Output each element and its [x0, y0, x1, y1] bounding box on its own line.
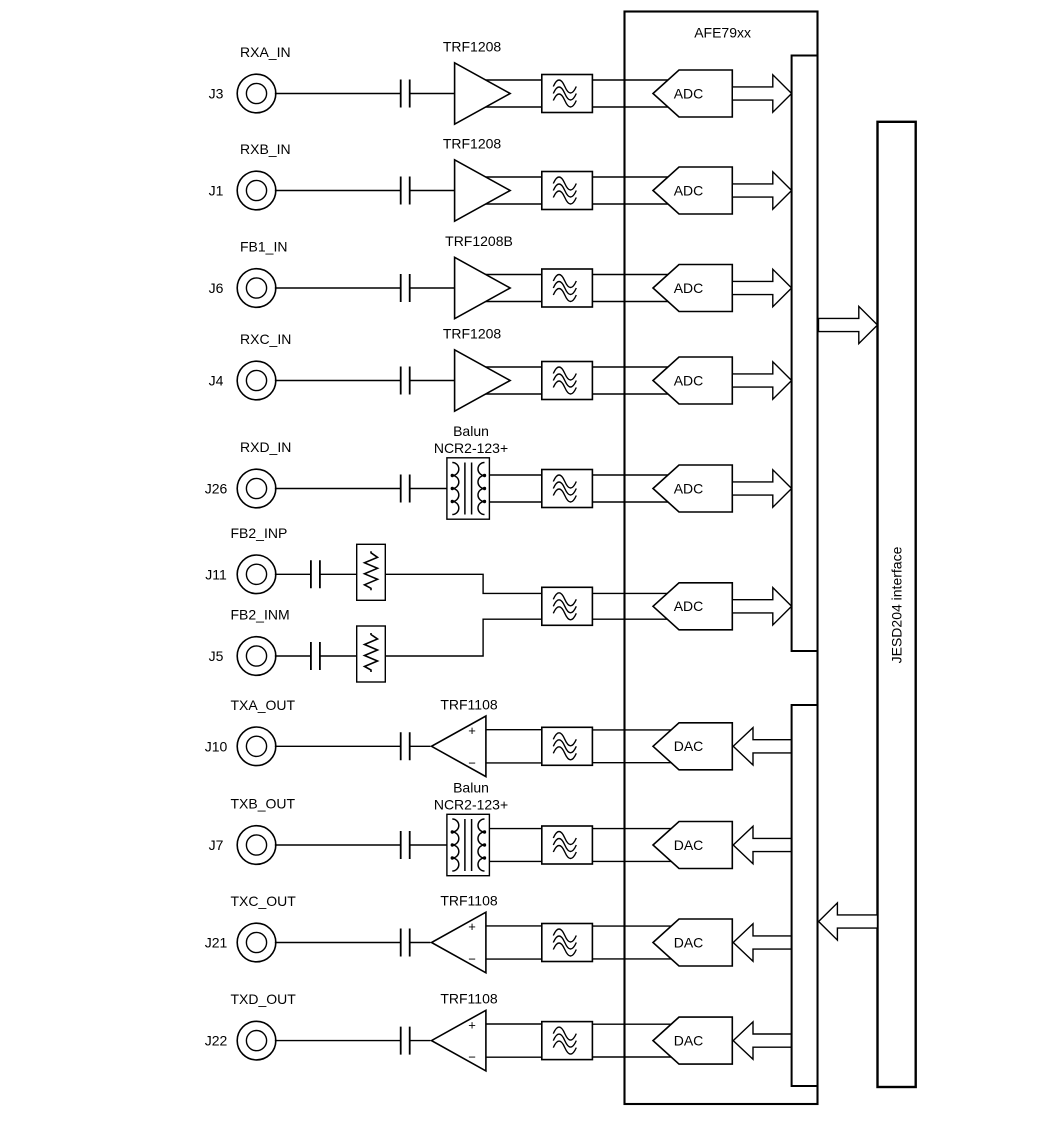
DAC converter DAC2 — [653, 822, 732, 869]
block arrow DAC2 input bus — [733, 826, 791, 863]
svg-text:TRF1208: TRF1208 — [443, 136, 502, 152]
wire filter to ADC (diff) — [592, 80, 672, 107]
svg-text:RXB_IN: RXB_IN — [240, 141, 291, 157]
wire cap to amp TRF1208 — [410, 190, 455, 192]
wire filter to ADC (diff) — [592, 177, 672, 204]
wire balun to filter (diff) — [489, 829, 541, 862]
capacitor C_FB2_INP (DC block) — [311, 560, 320, 588]
filter FL_RX1 — [542, 75, 593, 113]
svg-text:RXA_IN: RXA_IN — [240, 44, 291, 60]
svg-text:J22: J22 — [205, 1033, 228, 1049]
wire amp to filter (diff) — [480, 177, 542, 204]
ADC converter ADC6 — [653, 583, 732, 630]
block arrow JESD204 to DAC bus — [819, 903, 878, 940]
capacitor C_FB1_IN (DC block) — [401, 274, 410, 302]
svg-text:NCR2-123+: NCR2-123+ — [434, 797, 508, 813]
wire balun to filter (diff) — [489, 475, 541, 502]
DAC converter DAC3 — [653, 919, 732, 966]
svg-text:J4: J4 — [209, 373, 224, 389]
filter FL_RX4 — [542, 362, 593, 400]
amplifier TRF1108 — [432, 1010, 486, 1071]
svg-text:J6: J6 — [209, 280, 224, 296]
svg-text:ADC: ADC — [674, 85, 704, 101]
wire FB2_INM to filter — [385, 619, 542, 656]
svg-text:RXD_IN: RXD_IN — [240, 439, 291, 455]
svg-text:−: − — [468, 1050, 476, 1065]
wire cap to R_FB2_INP — [320, 573, 357, 575]
capacitor C_RXB_IN (DC block) — [401, 177, 410, 205]
DAC converter DAC4 — [653, 1017, 732, 1064]
wire amp to filter (diff) — [486, 1024, 542, 1057]
svg-text:DAC: DAC — [674, 837, 704, 853]
connector J11 (SMA jack) — [237, 555, 276, 594]
block arrow ADC1 output bus — [732, 75, 791, 112]
wire amp to filter (diff) — [480, 80, 542, 107]
resistor R_FB2_INP — [357, 544, 386, 600]
wire amp to filter (diff) — [480, 275, 542, 302]
connector J4 (SMA jack) — [237, 361, 276, 400]
filter FL_TX4 — [542, 1022, 593, 1060]
amplifier TRF1208B — [455, 257, 511, 318]
connector J1 (SMA jack) — [237, 171, 276, 210]
block arrow ADC4 output bus — [732, 362, 791, 399]
wire cap to amp TRF1208B — [410, 287, 455, 289]
filter FL_TX3 — [542, 924, 593, 962]
svg-text:JESD204 interface: JESD204 interface — [889, 546, 905, 663]
svg-text:Balun: Balun — [453, 780, 489, 796]
capacitor C_FB2_INM (DC block) — [311, 642, 320, 670]
wire J5 to cap — [275, 655, 311, 657]
node DAC data bus bar — [792, 705, 818, 1086]
svg-text:−: − — [468, 952, 476, 967]
capacitor C_TXA_OUT (DC block) — [401, 732, 410, 760]
wire cap to R_FB2_INM — [320, 655, 357, 657]
connector J3 (SMA jack) — [237, 74, 276, 113]
capacitor C_TXB_OUT (DC block) — [401, 831, 410, 859]
amplifier TRF1208 — [455, 350, 511, 411]
wire J11 to cap — [275, 573, 311, 575]
svg-text:−: − — [468, 755, 476, 770]
svg-text:TXA_OUT: TXA_OUT — [231, 697, 296, 713]
balun T_TXB_OUT NCR2-123+ transformer — [447, 814, 490, 875]
wire cap to amp TRF1108 — [410, 1040, 431, 1042]
wire amp to filter (diff) — [480, 367, 542, 394]
block arrow ADC bus to JESD204 — [819, 306, 878, 343]
wire filter to DAC (diff) — [592, 730, 672, 763]
wire FB2_INP to filter — [385, 574, 542, 593]
amplifier TRF1108 — [432, 912, 486, 973]
svg-text:TRF1208: TRF1208 — [443, 326, 502, 342]
svg-text:DAC: DAC — [674, 934, 704, 950]
wire amp to filter (diff) — [486, 730, 542, 763]
block arrow ADC5 output bus — [732, 470, 791, 507]
ADC converter ADC4 — [653, 357, 732, 404]
svg-text:AFE79xx: AFE79xx — [694, 25, 751, 41]
filter FL_RX3 — [542, 269, 593, 307]
wire J22 to cap — [275, 1040, 401, 1042]
svg-text:+: + — [468, 1017, 476, 1032]
svg-text:NCR2-123+: NCR2-123+ — [434, 440, 508, 456]
svg-text:DAC: DAC — [674, 738, 704, 754]
wire cap to balun — [410, 488, 447, 490]
wire J3 to cap — [275, 93, 401, 95]
ADC converter ADC5 — [653, 465, 732, 512]
amplifier TRF1108 — [432, 716, 486, 777]
connector J22 (SMA jack) — [237, 1021, 276, 1060]
capacitor C_RXC_IN (DC block) — [401, 367, 410, 395]
svg-text:RXC_IN: RXC_IN — [240, 331, 291, 347]
block arrow DAC1 input bus — [733, 728, 791, 765]
svg-text:FB2_INM: FB2_INM — [231, 607, 290, 623]
connector J21 (SMA jack) — [237, 923, 276, 962]
svg-text:FB1_IN: FB1_IN — [240, 239, 287, 255]
balun T_RXD_IN NCR2-123+ transformer — [447, 458, 490, 519]
wire amp to filter (diff) — [486, 926, 542, 959]
svg-text:ADC: ADC — [674, 480, 704, 496]
filter FL_RX2 — [542, 172, 593, 210]
svg-text:ADC: ADC — [674, 182, 704, 198]
svg-text:TRF1108: TRF1108 — [440, 696, 498, 712]
svg-text:J11: J11 — [205, 566, 227, 582]
wire filter to ADC (diff) — [592, 367, 672, 394]
svg-text:+: + — [468, 723, 476, 738]
wire cap to amp TRF1108 — [410, 745, 431, 747]
wire filter to DAC (diff) — [592, 829, 672, 862]
svg-text:J1: J1 — [209, 183, 224, 199]
block arrow ADC2 output bus — [732, 172, 791, 209]
svg-text:ADC: ADC — [674, 372, 704, 388]
JESD204 interface box — [878, 122, 916, 1087]
wire cap to balun — [410, 844, 447, 846]
wire J26 to cap — [275, 488, 401, 490]
connector J6 (SMA jack) — [237, 269, 276, 308]
svg-text:FB2_INP: FB2_INP — [231, 525, 288, 541]
ADC converter ADC2 — [653, 167, 732, 214]
block arrow ADC3 output bus — [732, 269, 791, 306]
wire filter to DAC (diff) — [592, 926, 672, 959]
wire J10 to cap — [275, 745, 401, 747]
block arrow DAC3 input bus — [733, 924, 791, 961]
svg-text:TXD_OUT: TXD_OUT — [231, 991, 297, 1007]
svg-text:J10: J10 — [205, 738, 228, 754]
wire J7 to cap — [275, 844, 401, 846]
block arrow ADC6 output bus — [732, 588, 791, 625]
wire J21 to cap — [275, 942, 401, 944]
connector J5 (SMA jack) — [237, 637, 276, 676]
svg-text:+: + — [468, 919, 476, 934]
svg-text:DAC: DAC — [674, 1033, 704, 1049]
wire J4 to cap — [275, 380, 401, 382]
svg-text:TRF1108: TRF1108 — [440, 991, 498, 1007]
wire filter to ADC (diff) — [592, 275, 672, 302]
capacitor C_RXD_IN (DC block) — [401, 475, 410, 503]
wire J6 to cap — [275, 287, 401, 289]
wire cap to amp TRF1208 — [410, 93, 455, 95]
capacitor C_TXC_OUT (DC block) — [401, 929, 410, 957]
block arrow DAC4 input bus — [733, 1022, 791, 1059]
connector J10 (SMA jack) — [237, 727, 276, 766]
filter FL_TX1 — [542, 727, 593, 765]
capacitor C_TXD_OUT (DC block) — [401, 1027, 410, 1055]
ADC converter ADC3 — [653, 265, 732, 312]
svg-text:Balun: Balun — [453, 423, 489, 439]
svg-text:J21: J21 — [205, 935, 228, 951]
svg-text:J3: J3 — [209, 86, 224, 102]
amplifier TRF1208 — [455, 160, 511, 221]
svg-text:TRF1108: TRF1108 — [440, 893, 498, 909]
wire cap to amp TRF1108 — [410, 942, 431, 944]
svg-text:J26: J26 — [205, 481, 228, 497]
connector J26 (SMA jack) — [237, 469, 276, 508]
svg-text:TXC_OUT: TXC_OUT — [231, 893, 297, 909]
wire cap to amp TRF1208 — [410, 380, 455, 382]
svg-text:ADC: ADC — [674, 598, 704, 614]
svg-text:J5: J5 — [209, 648, 224, 664]
wire filter to DAC (diff) — [592, 1024, 672, 1057]
svg-text:TRF1208: TRF1208 — [443, 39, 502, 55]
filter FL_FB2 — [542, 587, 593, 625]
node ADC data bus bar — [792, 56, 818, 652]
svg-text:TRF1208B: TRF1208B — [445, 233, 513, 249]
svg-text:TXB_OUT: TXB_OUT — [231, 796, 296, 812]
ADC converter ADC1 — [653, 70, 732, 117]
amplifier TRF1208 — [455, 63, 511, 124]
wire filter to ADC6 (diff) — [592, 593, 672, 619]
resistor R_FB2_INM — [357, 626, 386, 682]
wire J1 to cap — [275, 190, 401, 192]
filter FL_TX2 — [542, 826, 593, 864]
DAC converter DAC1 — [653, 723, 732, 770]
connector J7 (SMA jack) — [237, 826, 276, 865]
filter FL_RX5 — [542, 470, 593, 508]
svg-text:J7: J7 — [209, 837, 224, 853]
svg-text:ADC: ADC — [674, 280, 704, 296]
capacitor C_RXA_IN (DC block) — [401, 80, 410, 108]
wire filter to ADC (diff) — [592, 475, 672, 502]
AFE79xx chip box — [625, 12, 818, 1105]
